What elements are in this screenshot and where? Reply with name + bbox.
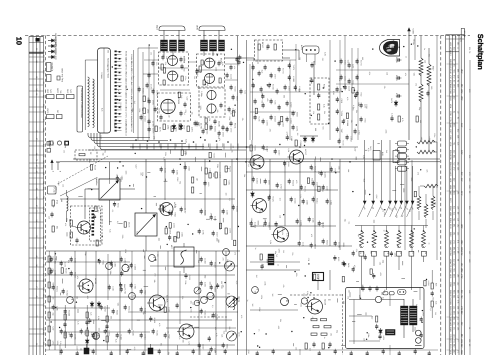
svg-text:L796: L796	[202, 230, 205, 234]
svg-text:+407: +407	[428, 137, 431, 141]
svg-text:33p: 33p	[84, 252, 87, 255]
svg-text:4,7k: 4,7k	[286, 132, 289, 136]
svg-text:Werte: Werte	[49, 141, 52, 147]
svg-text:364: 364	[457, 306, 460, 309]
svg-text:C1856 1n: C1856 1n	[125, 128, 128, 136]
svg-text:8,2k: 8,2k	[261, 70, 264, 74]
svg-text:97: 97	[35, 165, 38, 167]
bottom right small parts	[342, 251, 423, 339]
svg-text:11: 11	[457, 47, 460, 49]
small dashed box mid-left	[75, 150, 97, 160]
svg-text:270: 270	[90, 332, 93, 335]
svg-text:109V: 109V	[460, 224, 463, 229]
svg-text:L287: L287	[351, 64, 354, 68]
tuner shield box with tube V1 (ECC85)	[159, 52, 189, 85]
svg-text:100n: 100n	[145, 145, 148, 149]
svg-text:R1009: R1009	[213, 126, 216, 131]
svg-text:0,1: 0,1	[183, 112, 186, 114]
svg-text:4,7k: 4,7k	[215, 333, 218, 336]
svg-text:100n: 100n	[125, 171, 128, 175]
svg-text:T1224: T1224	[340, 111, 343, 116]
svg-text:Poly. Fol. 250V: Poly. Fol. 250V	[61, 67, 64, 82]
svg-text:2,2k: 2,2k	[113, 121, 116, 125]
antenna dipole 2	[196, 25, 226, 43]
svg-text:31k: 31k	[453, 212, 456, 215]
svg-text:33p: 33p	[418, 107, 421, 110]
texture labels upper 2	[100, 39, 436, 144]
mid band transistor T2	[158, 202, 176, 216]
svg-text:93: 93	[457, 117, 460, 119]
svg-text:L846: L846	[205, 130, 208, 134]
svg-text:0,5W: 0,5W	[47, 108, 50, 113]
svg-text:0,5: 0,5	[311, 317, 314, 320]
svg-text:R1145: R1145	[94, 165, 97, 170]
svg-text:4,7k: 4,7k	[162, 157, 165, 160]
svg-text:680: 680	[342, 301, 345, 304]
svg-text:220k: 220k	[174, 144, 177, 148]
svg-text:C665: C665	[181, 232, 184, 236]
svg-text:100n: 100n	[97, 328, 100, 332]
legend: voltage symbol rows	[48, 32, 58, 59]
svg-text:L553: L553	[449, 42, 452, 46]
page number 10	[15, 37, 24, 45]
svg-text:47k: 47k	[240, 315, 243, 318]
preset pot small	[194, 287, 201, 294]
svg-text:R741: R741	[287, 162, 290, 166]
left reference table grid	[29, 37, 44, 355]
svg-text:L623: L623	[449, 172, 452, 176]
svg-text:270: 270	[100, 72, 103, 75]
svg-text:1k5: 1k5	[378, 262, 381, 265]
svg-text:D552: D552	[337, 257, 340, 261]
svg-text:680: 680	[217, 240, 220, 243]
svg-text:R518: R518	[449, 162, 452, 167]
svg-text:C1556: C1556	[265, 120, 268, 125]
svg-text:2,2k: 2,2k	[200, 91, 203, 94]
svg-text:150: 150	[457, 322, 460, 325]
svg-text:C1004: C1004	[108, 330, 111, 335]
svg-text:470: 470	[197, 86, 200, 89]
svg-text:220k: 220k	[300, 303, 303, 307]
svg-text:D1135: D1135	[127, 222, 130, 227]
svg-text:5n6: 5n6	[197, 260, 200, 263]
svg-text:2,2k: 2,2k	[311, 167, 314, 170]
svg-text:L304: L304	[312, 218, 315, 222]
svg-text:Schaltplan: Schaltplan	[476, 34, 485, 71]
svg-text:+245V: +245V	[412, 28, 415, 35]
legend: resistor tolerance row 1	[47, 88, 75, 99]
IF pre-stage box	[255, 40, 283, 61]
svg-text:680: 680	[100, 75, 103, 78]
svg-text:C1657: C1657	[124, 258, 127, 263]
svg-text:R1020: R1020	[64, 268, 67, 273]
bottom mid pot P3	[225, 261, 235, 271]
svg-text:680: 680	[107, 50, 110, 53]
svg-text:T1720: T1720	[341, 140, 344, 145]
svg-text:136: 136	[457, 206, 460, 209]
svg-text:37: 37	[35, 138, 38, 140]
svg-text:0,1W 5%: 0,1W 5%	[51, 62, 54, 71]
svg-text:8,2k: 8,2k	[244, 90, 247, 93]
svg-text:37: 37	[35, 130, 38, 132]
svg-text:Transistorbest.-Punkte beachte: Transistorbest.-Punkte beachten	[80, 88, 83, 119]
svg-text:68: 68	[457, 259, 460, 261]
svg-text:T1375: T1375	[292, 65, 295, 70]
svg-text:1n: 1n	[254, 248, 257, 250]
supply rectifier diode	[379, 328, 395, 335]
svg-text:R1521: R1521	[56, 286, 59, 291]
svg-text:22k: 22k	[241, 118, 244, 121]
svg-text:R849: R849	[92, 320, 95, 324]
svg-text:100n: 100n	[197, 104, 200, 108]
svg-text:Tastenaggregat 7-fach: Tastenaggregat 7-fach	[107, 58, 110, 78]
svg-text:270: 270	[233, 252, 236, 255]
svg-text:C535: C535	[449, 311, 452, 316]
svg-text:680: 680	[282, 95, 285, 98]
svg-text:L1872: L1872	[278, 150, 281, 155]
svg-text:4,7k: 4,7k	[286, 233, 289, 236]
svg-text:10k: 10k	[191, 112, 194, 115]
tuner output bus wires	[88, 147, 250, 150]
svg-text:T1950: T1950	[66, 290, 69, 295]
svg-text:56k: 56k	[434, 202, 437, 205]
random extra parts upper	[161, 42, 429, 122]
svg-text:100n: 100n	[221, 143, 224, 147]
svg-text:R1772: R1772	[281, 68, 284, 73]
svg-text:Tr2: Tr2	[275, 254, 278, 257]
svg-text:D175: D175	[159, 127, 162, 132]
svg-text:2m: 2m	[453, 322, 456, 325]
svg-text:47n: 47n	[68, 332, 71, 335]
left table header cell (dark)	[29, 38, 44, 53]
output transistor T9	[177, 324, 194, 339]
svg-text:199: 199	[457, 274, 460, 277]
svg-text:C1390: C1390	[299, 141, 302, 147]
svg-text:L787: L787	[449, 75, 452, 79]
svg-text:25m: 25m	[453, 185, 456, 189]
svg-text:4,7k: 4,7k	[313, 62, 316, 65]
svg-text:R161: R161	[449, 344, 452, 349]
svg-text:R1236: R1236	[317, 274, 320, 279]
manufacturer logo shield	[380, 40, 400, 57]
junction dots field upper	[112, 44, 419, 139]
svg-text:R92: R92	[371, 316, 374, 319]
svg-text:295: 295	[457, 191, 460, 194]
svg-text:47k: 47k	[218, 138, 221, 141]
svg-text:470: 470	[310, 234, 313, 237]
svg-text:42: 42	[35, 171, 38, 173]
svg-text:10kW: 10kW	[57, 88, 60, 93]
svg-text:3,3k: 3,3k	[323, 104, 326, 108]
svg-text:1k5: 1k5	[255, 275, 258, 278]
svg-text:1n: 1n	[257, 329, 260, 331]
svg-text:1k5: 1k5	[199, 70, 202, 73]
svg-text:56k: 56k	[323, 111, 326, 114]
bottom left component field	[50, 257, 229, 353]
svg-text:D895: D895	[123, 284, 126, 288]
svg-text:176V: 176V	[460, 251, 463, 256]
svg-text:33p: 33p	[357, 234, 360, 237]
svg-text:L578: L578	[316, 182, 319, 186]
svg-text:255: 255	[457, 327, 460, 330]
svg-text:8,2k: 8,2k	[222, 331, 225, 334]
tuner bias components row	[143, 96, 237, 132]
svg-text:C1662: C1662	[289, 118, 292, 123]
svg-text:10k: 10k	[166, 331, 169, 334]
svg-text:R319: R319	[449, 218, 452, 223]
svg-text:270: 270	[222, 258, 225, 261]
harness wire tags	[369, 146, 399, 163]
svg-text:56k: 56k	[216, 110, 219, 113]
svg-text:1k: 1k	[68, 314, 71, 316]
svg-text:4,7k: 4,7k	[401, 118, 404, 122]
tuner shield box 2 with tube V2	[197, 54, 225, 87]
cable harness vertical wires	[359, 140, 415, 217]
input transformer L3 (right half)	[179, 40, 225, 51]
svg-text:-405: -405	[420, 137, 423, 140]
speaker matching coil row	[360, 226, 426, 248]
svg-text:R1528: R1528	[292, 180, 295, 185]
svg-text:680: 680	[181, 340, 184, 343]
svg-text:2,2k: 2,2k	[59, 341, 62, 344]
svg-text:33p: 33p	[408, 209, 411, 212]
svg-text:C705: C705	[184, 150, 187, 154]
svg-text:1W: 1W	[57, 110, 60, 113]
svg-text:L280: L280	[167, 125, 170, 129]
mains transformer (hatched)	[401, 299, 418, 338]
svg-text:77: 77	[35, 210, 38, 212]
svg-text:1k5: 1k5	[278, 215, 281, 218]
svg-text:9m: 9m	[453, 64, 456, 67]
svg-text:L348: L348	[290, 137, 293, 141]
svg-text:D1662: D1662	[256, 178, 259, 183]
right column long verticals	[405, 36, 437, 260]
svg-text:47k: 47k	[214, 327, 217, 330]
texture labels lower 2	[48, 143, 437, 355]
svg-text:5n6: 5n6	[196, 74, 199, 77]
svg-text:270: 270	[417, 172, 420, 175]
svg-text:22k: 22k	[61, 184, 64, 187]
svg-text:L938: L938	[449, 178, 452, 182]
svg-text:87: 87	[35, 205, 38, 207]
emitter resistor row C	[311, 333, 333, 336]
left table row entries	[29, 48, 45, 355]
svg-text:33p: 33p	[335, 330, 338, 333]
bottom-left dense stack 2	[85, 305, 92, 348]
svg-text:32: 32	[35, 196, 38, 198]
svg-text:220k: 220k	[141, 172, 144, 176]
svg-text:56k: 56k	[159, 343, 162, 346]
svg-text:R736: R736	[395, 93, 398, 98]
svg-text:R1869: R1869	[169, 228, 172, 233]
svg-text:C323: C323	[394, 253, 397, 257]
left edge component chain	[48, 251, 55, 350]
svg-text:220V~: 220V~	[414, 327, 417, 333]
svg-text:8,2k: 8,2k	[174, 204, 177, 207]
svg-text:10k: 10k	[76, 296, 79, 299]
svg-text:10k: 10k	[312, 111, 315, 114]
right column zigzag chain lowest	[417, 186, 435, 228]
audio transistor T6	[272, 227, 289, 242]
svg-text:470k: 470k	[56, 200, 59, 204]
svg-text:95k: 95k	[453, 317, 456, 320]
IF strip extra parts	[252, 59, 367, 146]
svg-text:1n: 1n	[423, 48, 426, 50]
svg-text:R1156: R1156	[311, 178, 314, 183]
svg-text:5n6: 5n6	[415, 304, 418, 307]
svg-text:L490: L490	[226, 210, 229, 214]
junction dots row under tuner	[135, 139, 229, 143]
svg-text:8,2k: 8,2k	[52, 257, 55, 260]
svg-text:1k5: 1k5	[392, 39, 395, 42]
svg-text:AC117: AC117	[304, 149, 307, 156]
circled wire junction numbers	[67, 249, 259, 340]
svg-text:4,7k: 4,7k	[77, 321, 80, 325]
svg-text:33p: 33p	[381, 260, 384, 263]
svg-text:75k: 75k	[453, 142, 456, 145]
svg-text:1k5: 1k5	[343, 119, 346, 122]
main horizontal bus B	[60, 161, 440, 163]
svg-text:56k: 56k	[52, 283, 55, 286]
svg-text:220k: 220k	[216, 164, 219, 168]
IF vertical feed wires	[330, 36, 352, 140]
trunk junctions	[119, 158, 410, 162]
svg-text:8,2k: 8,2k	[363, 179, 366, 182]
svg-text:350: 350	[457, 162, 460, 165]
svg-text:1n: 1n	[277, 264, 280, 266]
svg-text:94m: 94m	[453, 290, 456, 294]
svg-text:C1008: C1008	[134, 264, 137, 269]
svg-text:1n: 1n	[246, 300, 249, 302]
dashed frame right edge	[440, 36, 442, 355]
svg-text:ECH81: ECH81	[177, 97, 180, 105]
svg-text:S2: S2	[97, 210, 100, 212]
svg-text:2,2k: 2,2k	[355, 249, 358, 252]
switch contact labels	[125, 50, 134, 136]
svg-text:154V: 154V	[460, 240, 463, 245]
bottom edge cut-off parts	[60, 349, 431, 355]
svg-text:430: 430	[457, 129, 460, 132]
svg-text:1n: 1n	[211, 75, 214, 77]
svg-text:33p: 33p	[412, 42, 415, 45]
svg-text:56: 56	[35, 89, 38, 91]
circled letter node	[194, 300, 200, 306]
svg-text:53: 53	[35, 48, 38, 50]
svg-text:C506: C506	[449, 268, 452, 273]
svg-text:0,1: 0,1	[382, 297, 385, 300]
svg-text:33p: 33p	[413, 39, 416, 42]
svg-text:C1818: C1818	[349, 136, 352, 141]
svg-text:R641: R641	[449, 84, 452, 89]
AM demod transformer (crossed box)	[135, 213, 157, 236]
svg-text:D973: D973	[120, 177, 123, 181]
svg-text:R253: R253	[326, 240, 329, 244]
svg-text:188V: 188V	[460, 268, 463, 273]
svg-text:90m: 90m	[453, 191, 456, 195]
svg-text:L1954: L1954	[295, 126, 298, 131]
additional interconnect wires	[46, 251, 300, 332]
svg-text:0,1: 0,1	[111, 210, 114, 213]
svg-text:216V: 216V	[460, 150, 463, 155]
svg-text:R786: R786	[449, 155, 452, 160]
svg-text:MW: MW	[52, 142, 55, 146]
bottom right wires	[246, 256, 424, 290]
svg-text:Dipol: Dipol	[156, 25, 159, 30]
svg-text:1kW: 1kW	[47, 89, 50, 93]
svg-text:4,7k: 4,7k	[188, 341, 191, 344]
svg-text:75: 75	[35, 159, 38, 161]
circled node 9	[281, 298, 290, 306]
T1 bias parts	[65, 218, 103, 246]
IF filter can and dashed resistor box	[300, 45, 329, 124]
circled node 1	[301, 298, 308, 304]
svg-text:L1259: L1259	[104, 306, 107, 311]
bus tap comb	[132, 144, 238, 150]
svg-text:C515: C515	[449, 167, 452, 172]
emitter resistor row B	[313, 326, 331, 328]
svg-text:L1911: L1911	[343, 76, 346, 81]
svg-text:15: 15	[35, 76, 38, 78]
svg-text:R218: R218	[449, 150, 452, 155]
multi-pin connector stack	[395, 141, 409, 171]
aux contact strip (dashed)	[90, 208, 101, 241]
svg-text:L720: L720	[449, 263, 452, 267]
svg-text:T154: T154	[351, 80, 354, 84]
svg-text:L915: L915	[449, 274, 452, 278]
output transistor T10	[306, 299, 327, 314]
svg-text:R1120: R1120	[229, 166, 232, 171]
NTC box with S-curve	[170, 243, 194, 273]
svg-text:L966: L966	[212, 173, 215, 177]
bottom-left dense stack 3	[105, 305, 112, 350]
svg-text:10k: 10k	[338, 78, 341, 81]
note box Transistorbestueckung	[77, 86, 83, 132]
svg-text:BF167: BF167	[261, 42, 264, 49]
svg-text:47k: 47k	[381, 209, 384, 212]
svg-text:R852: R852	[449, 232, 452, 237]
svg-text:L518: L518	[449, 350, 452, 354]
svg-text:AD149: AD149	[324, 299, 327, 306]
middle band component field	[160, 165, 239, 238]
svg-text:D173: D173	[64, 262, 67, 266]
svg-text:R853: R853	[235, 96, 238, 100]
scattered value labels lower	[52, 144, 424, 351]
svg-text:100n: 100n	[76, 346, 79, 350]
svg-text:R880: R880	[449, 317, 452, 322]
svg-text:R828: R828	[449, 306, 452, 311]
svg-text:56k: 56k	[117, 303, 120, 306]
rail decoupling capacitors	[395, 57, 402, 98]
svg-text:R672: R672	[449, 198, 452, 203]
svg-text:181V: 181V	[460, 69, 463, 74]
tuner interior extra parts	[147, 55, 242, 123]
IF extra wires	[246, 40, 409, 140]
svg-text:L579: L579	[229, 128, 232, 132]
svg-text:680: 680	[381, 292, 384, 295]
svg-text:D393: D393	[204, 282, 207, 286]
svg-text:371: 371	[457, 350, 460, 353]
svg-text:L1890: L1890	[289, 102, 292, 107]
svg-text:100n: 100n	[109, 271, 112, 275]
output transistor T8	[147, 295, 169, 311]
bottom edge wires	[46, 345, 438, 355]
svg-text:R261: R261	[128, 306, 131, 310]
svg-text:56k: 56k	[412, 73, 415, 76]
svg-text:90: 90	[457, 80, 460, 82]
svg-text:6,8k: 6,8k	[435, 301, 438, 304]
svg-text:233: 233	[457, 232, 460, 235]
svg-text:4,7k: 4,7k	[391, 113, 394, 116]
